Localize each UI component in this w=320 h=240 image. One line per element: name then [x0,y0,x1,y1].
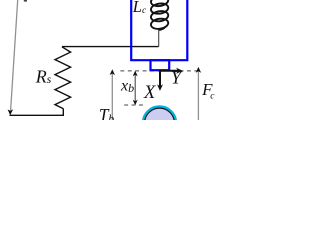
svg-text:Lc: Lc [132,0,147,16]
svg-text:c: c [210,91,215,101]
svg-text:xb: xb [120,78,134,95]
svg-text:Rs: Rs [35,66,52,86]
svg-text:X: X [143,83,156,103]
